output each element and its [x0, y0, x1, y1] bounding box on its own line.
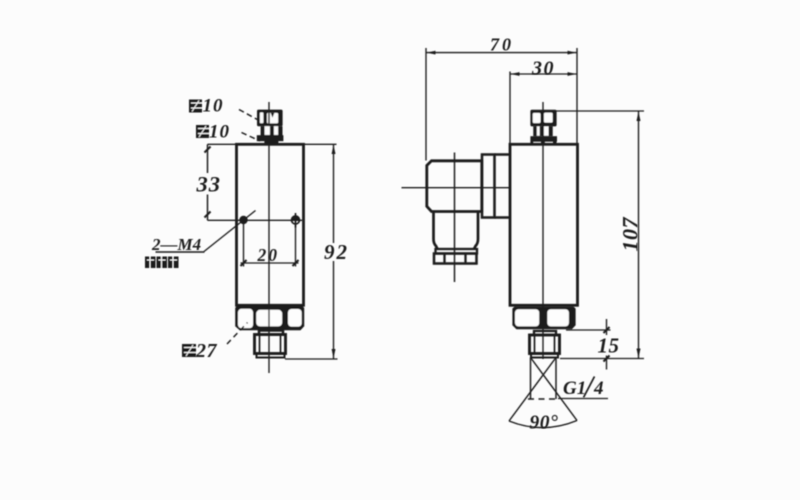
svg-text:15: 15 [598, 334, 620, 358]
svg-text:10: 10 [209, 122, 230, 143]
svg-text:92: 92 [324, 240, 349, 264]
svg-text:90°: 90° [530, 413, 559, 434]
svg-text:10: 10 [203, 96, 224, 117]
svg-text:33: 33 [196, 172, 222, 197]
svg-text:2—M4: 2—M4 [151, 235, 201, 254]
svg-text:G1: G1 [563, 378, 586, 399]
svg-text:20: 20 [257, 245, 280, 265]
svg-text:4: 4 [593, 378, 604, 399]
svg-text:30: 30 [531, 58, 555, 80]
svg-text:107: 107 [618, 217, 643, 252]
svg-text:27: 27 [195, 340, 218, 362]
svg-text:70: 70 [490, 35, 514, 55]
